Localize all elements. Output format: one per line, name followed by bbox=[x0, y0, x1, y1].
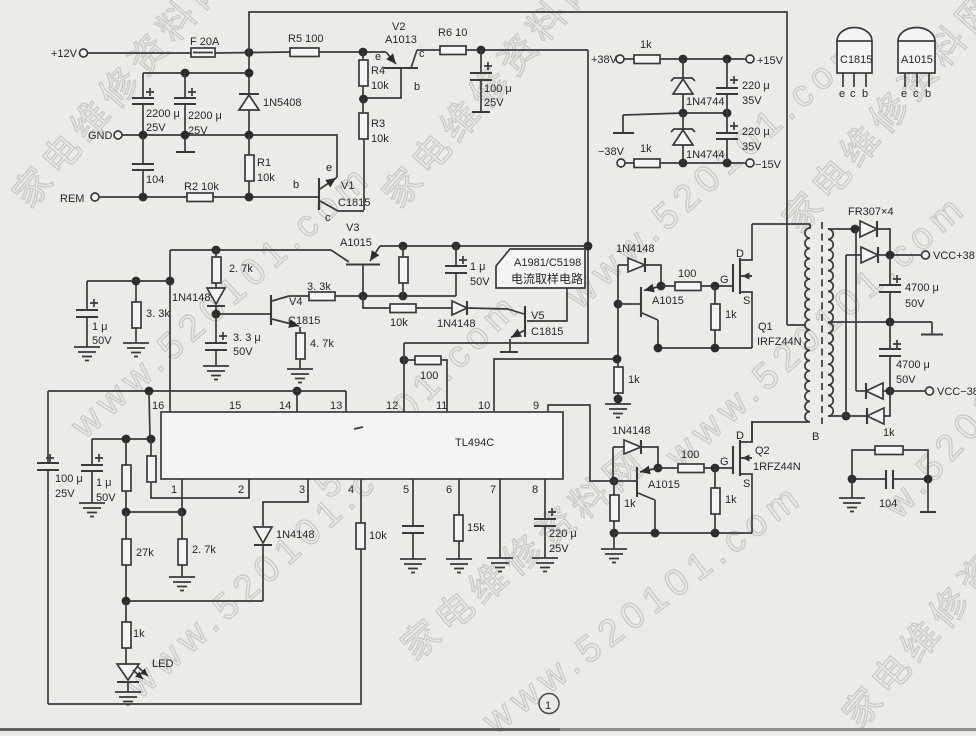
resistor 2.7k bbox=[212, 250, 253, 283]
svg-text:1N4148: 1N4148 bbox=[437, 318, 476, 330]
resistor 1k (+38V) bbox=[634, 39, 660, 64]
wire fuse to R5, junction at x249 bbox=[215, 48, 290, 57]
svg-text:12: 12 bbox=[386, 400, 398, 412]
ground snubber bbox=[839, 479, 865, 512]
svg-text:6: 6 bbox=[446, 484, 452, 496]
capacitor 4700u 50V lower bbox=[879, 322, 930, 391]
watermark band 6 bbox=[474, 474, 811, 736]
package outline C1815 bbox=[837, 28, 872, 101]
svg-text:R1: R1 bbox=[257, 157, 271, 169]
snubber capacitor 104 bbox=[848, 470, 933, 510]
ground pin6 bbox=[446, 559, 472, 573]
svg-text:25V: 25V bbox=[146, 122, 166, 134]
diode 1N4148 (Q1 driver) bbox=[616, 243, 661, 286]
wire pin9 to Q2 driver bbox=[548, 405, 615, 481]
ground under LED bbox=[115, 692, 141, 705]
box A1981/C5198 current sampling bbox=[496, 249, 585, 288]
svg-text:F 20A: F 20A bbox=[190, 36, 220, 48]
capacitor 100u 25V bbox=[470, 50, 512, 112]
wire top row y391 bbox=[48, 387, 346, 396]
svg-text:1 μ: 1 μ bbox=[96, 477, 112, 489]
svg-text:b: b bbox=[293, 179, 299, 191]
svg-text:2: 2 bbox=[238, 484, 244, 496]
svg-text:R4: R4 bbox=[371, 65, 385, 77]
svg-text:A1981/C5198: A1981/C5198 bbox=[514, 257, 581, 269]
wire cap row y73 bbox=[143, 69, 249, 78]
pin 6 resistor 15k bbox=[446, 479, 485, 559]
svg-text:e: e bbox=[901, 88, 907, 100]
top rail from fuse junction bbox=[249, 12, 787, 325]
transistor V5 C1815 bbox=[500, 306, 563, 352]
terminal VCC+38 bbox=[886, 250, 975, 262]
svg-text:S: S bbox=[743, 478, 750, 490]
wire V3 emitter row to +38V line bbox=[380, 242, 588, 251]
svg-text:电流取样电路: 电流取样电路 bbox=[511, 271, 583, 286]
pin 10 label bbox=[478, 400, 490, 412]
svg-text:11: 11 bbox=[436, 400, 447, 412]
diode 1N4148 (V5 base) bbox=[416, 301, 508, 330]
watermark band 5 bbox=[375, 0, 608, 215]
svg-text:G: G bbox=[720, 274, 729, 286]
diode FR307 D2 bbox=[846, 247, 890, 263]
svg-text:V5: V5 bbox=[531, 310, 544, 322]
ground under 2.7k bbox=[169, 577, 195, 591]
svg-text:Q2: Q2 bbox=[755, 445, 770, 457]
+38V vertical line down bbox=[404, 50, 592, 343]
watermark band 8 bbox=[775, 0, 976, 240]
ground Q1 base pulldown bbox=[605, 404, 631, 418]
svg-text:A1015: A1015 bbox=[340, 237, 372, 249]
svg-text:4: 4 bbox=[348, 484, 354, 496]
svg-text:1k: 1k bbox=[133, 628, 145, 640]
svg-text:V1: V1 bbox=[341, 180, 354, 192]
svg-text:50V: 50V bbox=[92, 335, 112, 347]
pin 16 label bbox=[152, 400, 164, 412]
svg-text:R3: R3 bbox=[371, 118, 385, 130]
wire +12V rail tap to primary bbox=[787, 324, 806, 326]
snubber right end stub bbox=[920, 479, 936, 512]
svg-text:4. 7k: 4. 7k bbox=[310, 338, 334, 350]
svg-text:5: 5 bbox=[403, 484, 409, 496]
wire box lead to V5 collector bbox=[527, 288, 567, 321]
resistor 1k (Q1 base pulldown) bbox=[614, 367, 641, 404]
capacitor 100u 25V (left bottom) bbox=[37, 391, 83, 500]
ground Q2 bbox=[601, 533, 627, 563]
svg-text:e: e bbox=[326, 162, 332, 174]
diode 1N5408 bbox=[239, 52, 302, 135]
svg-text:S: S bbox=[743, 295, 750, 307]
watermark band 1 bbox=[5, 0, 238, 215]
wire REM row bbox=[99, 193, 187, 202]
svg-text:2. 7k: 2. 7k bbox=[192, 544, 216, 556]
ground under 4.7k bbox=[287, 369, 313, 383]
capacitor 2200u 25V no.1 bbox=[132, 73, 180, 135]
watermark band 10 bbox=[394, 439, 656, 668]
LED bbox=[117, 658, 173, 692]
wire left outer down to bottom rail bbox=[47, 470, 49, 704]
wire row y439 bbox=[92, 435, 155, 444]
svg-text:V4: V4 bbox=[289, 296, 302, 308]
svg-text:LED: LED bbox=[152, 658, 173, 670]
resistor 2.7k (pin1) bbox=[178, 512, 216, 577]
svg-text:1 μ: 1 μ bbox=[92, 321, 108, 333]
resistor 10k (V5 base) bbox=[390, 304, 416, 329]
svg-text:3. 3k: 3. 3k bbox=[307, 281, 331, 293]
svg-text:10k: 10k bbox=[257, 172, 275, 184]
transistor V4 C1815 bbox=[271, 295, 320, 327]
svg-text:A1015: A1015 bbox=[652, 295, 684, 307]
pin 5 capacitor bbox=[402, 479, 424, 559]
resistor R1 10k bbox=[245, 135, 275, 197]
wire V4 base row bbox=[212, 310, 270, 319]
snubber resistor 1k bbox=[852, 427, 928, 479]
capacitor 1u 50V (left) bbox=[76, 281, 170, 347]
wire top tap to D3 bbox=[855, 229, 857, 391]
svg-text:1k: 1k bbox=[725, 309, 737, 321]
ground pin7 bbox=[487, 558, 513, 572]
svg-text:B: B bbox=[812, 431, 819, 443]
svg-text:50V: 50V bbox=[896, 374, 916, 386]
diode 1N4148 (V4 base) bbox=[172, 283, 225, 314]
watermark band 2 bbox=[62, 154, 380, 446]
svg-text:3. 3k: 3. 3k bbox=[146, 308, 170, 320]
resistor 100 (Q2 gate) bbox=[658, 449, 732, 473]
wire 10k row from V3 base bbox=[363, 296, 390, 308]
resistor unlabeled (x151) bbox=[147, 439, 156, 482]
ground under 1u bbox=[74, 347, 100, 361]
transistor V3 A1015 bbox=[331, 222, 380, 296]
ground pin5 bbox=[400, 559, 426, 573]
wire secondary top tap bbox=[828, 225, 860, 234]
svg-text:e: e bbox=[375, 51, 381, 63]
wire Q2 driver input column bbox=[610, 447, 619, 485]
pin 2 wire bbox=[151, 479, 249, 498]
label FR307x4 bbox=[848, 206, 894, 218]
pin 11 label bbox=[436, 400, 447, 412]
svg-text:−15V: −15V bbox=[755, 159, 782, 171]
svg-text:50V: 50V bbox=[470, 276, 490, 288]
pin 12 label bbox=[386, 400, 398, 412]
capacitor 104 bbox=[132, 135, 164, 197]
fuse F 20A bbox=[190, 36, 220, 57]
capacitor 2200u 25V no.2 bbox=[174, 73, 222, 152]
svg-text:220 μ: 220 μ bbox=[742, 126, 770, 138]
capacitor 1u 50V (mid) bbox=[445, 246, 490, 296]
mosfet Q1 IRFZ44N bbox=[720, 224, 802, 348]
svg-text:G: G bbox=[720, 456, 729, 468]
pin 14 stub bbox=[279, 387, 301, 412]
watermark band 9 bbox=[657, 184, 975, 476]
resistor 27k bbox=[122, 512, 154, 601]
wire Q1 source row bbox=[654, 344, 752, 353]
resistor R3 10k bbox=[359, 99, 389, 210]
pin 13 stub bbox=[330, 391, 346, 412]
terminal +15V bbox=[746, 55, 784, 67]
svg-text:25V: 25V bbox=[55, 488, 75, 500]
svg-text:10k: 10k bbox=[369, 530, 387, 542]
svg-text:1N5408: 1N5408 bbox=[263, 97, 302, 109]
svg-text:4700 μ: 4700 μ bbox=[896, 359, 930, 371]
svg-text:1N4148: 1N4148 bbox=[612, 425, 651, 437]
resistor 1k (LED) bbox=[122, 601, 145, 664]
svg-text:100 μ: 100 μ bbox=[55, 473, 83, 485]
IC TL494C bbox=[161, 412, 563, 479]
svg-text:35V: 35V bbox=[742, 141, 762, 153]
wire pin12 node and 100 resistor to pin11 bbox=[400, 343, 415, 412]
svg-text:R2 10k: R2 10k bbox=[184, 181, 219, 193]
svg-text:13: 13 bbox=[330, 400, 342, 412]
svg-text:GND: GND bbox=[88, 130, 113, 142]
svg-text:C1815: C1815 bbox=[288, 315, 320, 327]
diode FR307 D4 bbox=[828, 391, 890, 424]
capacitor 220u 35V upper bbox=[716, 59, 770, 113]
ground under 3.3k bbox=[123, 343, 149, 357]
resistor 1k (Q1 gate pulldown) bbox=[711, 286, 737, 348]
package outline A1015 bbox=[898, 28, 935, 101]
svg-text:1N4148: 1N4148 bbox=[276, 529, 315, 541]
wire secondary centre tap row bbox=[828, 318, 943, 335]
resistor 4.7k bbox=[296, 327, 334, 369]
svg-text:b: b bbox=[862, 88, 868, 100]
svg-text:TL494C: TL494C bbox=[455, 437, 494, 449]
wire +38V to 1k bbox=[624, 58, 634, 60]
wire -38V row to -15V bbox=[660, 159, 746, 168]
resistor 3.3k (V4 collector) bbox=[289, 281, 335, 301]
svg-text:1k: 1k bbox=[628, 374, 640, 386]
svg-text:27k: 27k bbox=[136, 547, 154, 559]
svg-text:e: e bbox=[839, 88, 845, 100]
svg-text:25V: 25V bbox=[549, 543, 569, 555]
svg-text:2. 7k: 2. 7k bbox=[229, 263, 253, 275]
zener 1N4744 upper bbox=[671, 59, 725, 113]
svg-text:100: 100 bbox=[420, 370, 438, 382]
circled 1 page marker bbox=[539, 694, 559, 714]
svg-text:4700 μ: 4700 μ bbox=[905, 282, 939, 294]
svg-text:7: 7 bbox=[490, 484, 496, 496]
capacitor 3.3u 50V bbox=[205, 314, 261, 366]
transistor A1015 (Q1 driver) bbox=[618, 282, 684, 348]
wire bottom tap to D2 bbox=[845, 255, 847, 416]
pin 9 label bbox=[533, 400, 539, 412]
pin 3 wire bbox=[263, 479, 308, 526]
svg-text:1k: 1k bbox=[640, 39, 652, 51]
svg-text:V2: V2 bbox=[392, 21, 405, 33]
svg-text:A1015: A1015 bbox=[648, 479, 680, 491]
terminal GND bbox=[88, 130, 122, 142]
mid row with ground stub bbox=[613, 109, 731, 133]
svg-text:14: 14 bbox=[279, 400, 291, 412]
terminal -38V bbox=[598, 146, 625, 167]
wire x149 vertical bbox=[149, 391, 150, 439]
svg-text:1k: 1k bbox=[640, 143, 652, 155]
svg-text:c: c bbox=[913, 88, 919, 100]
svg-text:Q1: Q1 bbox=[758, 321, 773, 333]
label B bbox=[812, 431, 819, 443]
svg-text:R5 100: R5 100 bbox=[288, 33, 323, 45]
wire pin4 to bottom rail bbox=[48, 549, 361, 704]
resistor 100 (pin12-pin11) bbox=[415, 356, 441, 382]
svg-text:+15V: +15V bbox=[757, 55, 784, 67]
transistor A1015 (Q2 driver) bbox=[614, 464, 680, 533]
transistor V1 C1815 bbox=[293, 162, 370, 224]
watermark band 4 bbox=[307, 283, 529, 505]
svg-text:9: 9 bbox=[533, 400, 539, 412]
svg-text:100 μ: 100 μ bbox=[484, 83, 512, 95]
svg-text:15: 15 bbox=[229, 400, 241, 412]
svg-text:100: 100 bbox=[681, 449, 699, 461]
svg-text:10k: 10k bbox=[390, 317, 408, 329]
wire Q1 driver input column bbox=[613, 265, 623, 367]
svg-text:A1013: A1013 bbox=[385, 34, 417, 46]
pin 15 label bbox=[229, 400, 241, 412]
ground under 3.3u bbox=[203, 366, 229, 380]
svg-text:15k: 15k bbox=[467, 522, 485, 534]
svg-text:2200 μ: 2200 μ bbox=[146, 108, 180, 120]
svg-text:FR307×4: FR307×4 bbox=[848, 206, 894, 218]
svg-text:1: 1 bbox=[171, 484, 177, 496]
watermark band 12 bbox=[875, 339, 976, 527]
wire R2 to V1 base bbox=[213, 193, 318, 202]
svg-text:+38V: +38V bbox=[591, 54, 618, 66]
svg-text:3: 3 bbox=[299, 484, 305, 496]
wire V3 collector row bbox=[170, 246, 331, 255]
resistor 10k (pin4) bbox=[356, 523, 387, 549]
resistor 1k (Q2 base pulldown) bbox=[610, 481, 637, 537]
resistor unlabeled (x403) bbox=[399, 246, 408, 296]
transformer primary winding (left) bbox=[752, 224, 810, 442]
svg-text:2200 μ: 2200 μ bbox=[188, 110, 222, 122]
svg-text:+12V: +12V bbox=[51, 48, 78, 60]
scan artifact bottom line bbox=[0, 728, 976, 731]
wire pin10 to Q1 driver bbox=[494, 359, 616, 412]
wire +12V to fuse bbox=[88, 52, 192, 54]
ground under 1u bottom bbox=[79, 503, 105, 517]
capacitor 1u 50V (bottom) bbox=[81, 439, 116, 504]
svg-text:C1815: C1815 bbox=[531, 326, 563, 338]
svg-text:c: c bbox=[325, 212, 331, 224]
pin 7 wire bbox=[490, 479, 500, 558]
watermark band 3 bbox=[117, 414, 435, 706]
capacitor 220u 35V lower bbox=[716, 113, 770, 163]
svg-text:104: 104 bbox=[146, 174, 164, 186]
svg-text:3. 3 μ: 3. 3 μ bbox=[233, 332, 261, 344]
terminal -15V bbox=[746, 159, 782, 171]
svg-text:25V: 25V bbox=[484, 97, 504, 109]
svg-text:35V: 35V bbox=[742, 95, 762, 107]
svg-text:1: 1 bbox=[545, 700, 551, 712]
terminal REM bbox=[60, 193, 99, 205]
svg-text:V3: V3 bbox=[346, 222, 359, 234]
svg-text:1k: 1k bbox=[883, 427, 895, 439]
terminal +12V bbox=[51, 48, 88, 60]
svg-text:100: 100 bbox=[678, 268, 696, 280]
resistor unlabeled (x126) bbox=[122, 439, 131, 512]
wire GND row bbox=[122, 131, 337, 177]
diode 1N4148 (pin3) bbox=[254, 527, 315, 601]
resistor 100 (Q1 gate) bbox=[661, 268, 732, 291]
diode FR307 D3 bbox=[856, 383, 890, 399]
svg-text:10k: 10k bbox=[371, 80, 389, 92]
svg-text:VCC+38: VCC+38 bbox=[933, 250, 975, 262]
resistor R4 10k bbox=[359, 52, 389, 103]
watermark band 11 bbox=[835, 476, 976, 735]
zener 1N4744 lower bbox=[671, 113, 725, 163]
svg-text:1RFZ44N: 1RFZ44N bbox=[753, 461, 801, 473]
svg-text:b: b bbox=[925, 88, 931, 100]
svg-text:www.520101.com: www.520101.com bbox=[474, 474, 811, 736]
resistor 1k (Q2 gate pulldown) bbox=[711, 468, 737, 533]
svg-text:1 μ: 1 μ bbox=[470, 261, 486, 273]
svg-text:1k: 1k bbox=[624, 498, 636, 510]
diode FR307 D1 bbox=[860, 221, 890, 255]
svg-text:10: 10 bbox=[478, 400, 490, 412]
svg-text:1N4744: 1N4744 bbox=[686, 96, 725, 108]
transistor V2 A1013 bbox=[364, 21, 425, 98]
wire R5 to V2 emitter node bbox=[319, 48, 386, 57]
resistor R5 100 bbox=[288, 33, 323, 57]
terminal VCC-38 bbox=[886, 386, 976, 398]
svg-text:REM: REM bbox=[60, 193, 84, 205]
svg-text:C1815: C1815 bbox=[840, 54, 872, 66]
svg-text:C1815: C1815 bbox=[338, 197, 370, 209]
wire row A to 1u cap bbox=[335, 292, 456, 301]
pin 1 stub bbox=[171, 479, 186, 516]
diode 1N4148 (Q2 driver) bbox=[612, 425, 658, 468]
svg-text:220 μ: 220 μ bbox=[742, 80, 770, 92]
svg-text:−38V: −38V bbox=[598, 146, 625, 158]
wire V2 collector to R6 bbox=[417, 49, 440, 51]
svg-text:1N4148: 1N4148 bbox=[172, 292, 211, 304]
svg-text:b: b bbox=[414, 81, 420, 93]
wire row y512 bbox=[122, 508, 182, 517]
resistor 3.3k (left) bbox=[132, 277, 171, 343]
svg-text:c: c bbox=[850, 88, 856, 100]
svg-text:8: 8 bbox=[532, 484, 538, 496]
transformer core bbox=[821, 222, 823, 424]
svg-text:50V: 50V bbox=[905, 298, 925, 310]
resistor R6 10 bbox=[438, 27, 467, 55]
svg-text:16: 16 bbox=[152, 400, 164, 412]
watermark band 7 bbox=[557, 24, 875, 316]
feedback vertical to pin16 bbox=[166, 250, 175, 412]
resistor 1k (-38V) bbox=[625, 143, 660, 168]
wire diode to 27k junction bbox=[122, 597, 263, 606]
wire Q2 source row bbox=[614, 529, 752, 538]
svg-text:50V: 50V bbox=[233, 346, 253, 358]
svg-text:10k: 10k bbox=[371, 133, 389, 145]
resistor R2 10k bbox=[184, 181, 219, 202]
svg-text:IRFZ44N: IRFZ44N bbox=[757, 336, 802, 348]
svg-text:R6 10: R6 10 bbox=[438, 27, 467, 39]
svg-text:A1015: A1015 bbox=[901, 54, 933, 66]
svg-text:1N4744: 1N4744 bbox=[686, 149, 725, 161]
ground pin8 bbox=[532, 558, 558, 572]
terminal +38V bbox=[591, 54, 624, 66]
svg-text:220 μ: 220 μ bbox=[549, 528, 577, 540]
wire R6 to +38V line bbox=[466, 46, 588, 55]
svg-text:VCC−38: VCC−38 bbox=[937, 386, 976, 398]
wire 100 to pin 11 bbox=[441, 360, 447, 412]
svg-text:104: 104 bbox=[879, 498, 897, 510]
transformer secondary winding (right) bbox=[828, 229, 833, 416]
mosfet Q2 IRFZ44N bbox=[720, 421, 801, 533]
wire 1k to +15V bbox=[660, 55, 746, 64]
pin 8 capacitor 220u 25V bbox=[532, 479, 577, 558]
pin 4 wire and 10k bbox=[348, 479, 361, 523]
capacitor 4700u 50V upper bbox=[879, 255, 939, 322]
svg-text:1k: 1k bbox=[725, 494, 737, 506]
svg-text:1N4148: 1N4148 bbox=[616, 243, 655, 255]
